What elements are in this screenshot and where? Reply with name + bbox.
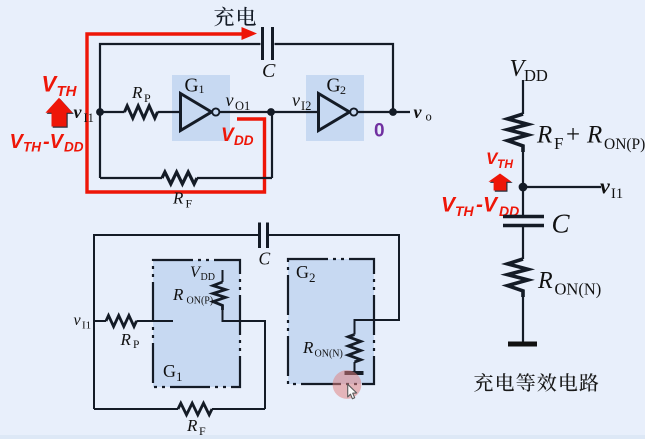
wire G1 output to node v_O1	[220, 111, 272, 113]
svg-text:+: +	[566, 122, 580, 149]
inverter U G2 triangle	[319, 94, 350, 131]
svg-text:v: v	[226, 90, 234, 110]
svg-text:R: R	[536, 122, 552, 149]
wire R_F row right	[197, 177, 272, 179]
label 充电 (charging)	[214, 7, 234, 27]
ground (G2 box)	[345, 371, 364, 375]
svg-text:ON(P): ON(P)	[604, 136, 645, 153]
node v_I1 (right) junction dot	[519, 183, 528, 192]
svg-text:P: P	[133, 339, 139, 351]
wire capacitor right to G2 box	[269, 235, 399, 335]
svg-text:R: R	[302, 338, 314, 357]
svg-text:F: F	[186, 197, 193, 211]
wire node to v_I1 label	[523, 186, 601, 188]
wire R_F row left	[100, 177, 162, 179]
inverter U G1 triangle	[181, 94, 212, 131]
inverter G1 bubble	[212, 108, 219, 115]
wire G2 output to v_o	[358, 111, 410, 113]
gate G1 background box	[172, 75, 230, 141]
resistor R_F (bottom)	[178, 403, 212, 415]
svg-text:o: o	[426, 110, 432, 124]
mouse cursor	[348, 384, 357, 399]
gate G2 equivalent box	[288, 259, 374, 384]
svg-text:C: C	[552, 209, 571, 239]
svg-text:I1: I1	[611, 186, 623, 202]
gate G1 equivalent box	[153, 260, 240, 387]
svg-text:DD: DD	[64, 140, 84, 155]
svg-text:v: v	[74, 102, 83, 122]
resistor R_ON(N) (right)	[508, 259, 529, 297]
svg-text:TH: TH	[23, 140, 41, 155]
svg-text:P: P	[144, 91, 151, 105]
svg-text:0: 0	[374, 121, 385, 142]
svg-text:1: 1	[199, 82, 205, 96]
wire R_ON(N) to ground (right)	[522, 297, 524, 342]
resistor R_P (bottom)	[106, 316, 137, 327]
svg-text:DD: DD	[524, 66, 548, 85]
svg-text:G: G	[163, 361, 176, 381]
svg-text:TH: TH	[497, 157, 513, 171]
wire outer loop left/top to capacitor	[94, 235, 258, 409]
capacitor C (top) left plate	[261, 27, 264, 60]
wire v_I1 to R_P	[100, 111, 125, 113]
svg-text:TH: TH	[455, 203, 475, 219]
svg-text:C: C	[259, 249, 271, 269]
wire v_I1 to R_P (bottom)	[94, 320, 106, 322]
wire resistor to node	[522, 152, 524, 215]
wire R_P to G1 input	[158, 111, 182, 113]
pink cursor highlight	[333, 370, 362, 399]
gate G2 background box	[306, 75, 364, 141]
svg-text:ON(N): ON(N)	[555, 280, 602, 299]
wire V_DD down	[522, 80, 524, 114]
capacitor C (right) top plate	[503, 215, 544, 219]
label 充电等效电路 (charging equivalent circuit)	[474, 373, 493, 392]
resistor R_F + R_ON(P) (right)	[508, 114, 529, 152]
svg-text:O1: O1	[235, 99, 250, 113]
svg-text:G: G	[296, 262, 309, 282]
node v_o junction dot	[389, 108, 397, 116]
svg-text:ON(N): ON(N)	[315, 349, 343, 360]
node v_O1 junction dot	[267, 108, 275, 116]
resistor R_ON(N) (box)	[348, 335, 361, 363]
inverter G2 bubble	[350, 108, 357, 115]
svg-text:G: G	[327, 76, 341, 97]
red block arrow up (right)	[490, 175, 513, 192]
capacitor C (bottom circuit) right plate	[266, 223, 269, 249]
svg-text:R: R	[537, 268, 553, 294]
wire R_F bottom row right	[212, 408, 265, 410]
svg-text:I1: I1	[84, 111, 94, 125]
svg-text:2: 2	[340, 83, 346, 97]
svg-text:R: R	[586, 122, 602, 149]
svg-text:C: C	[262, 60, 276, 82]
svg-text:G: G	[185, 76, 199, 97]
capacitor C (top) right plate	[271, 27, 274, 60]
svg-text:-V: -V	[476, 194, 499, 217]
red charging current path	[87, 34, 265, 192]
wire R_ON(N) to ground	[354, 362, 356, 371]
ground (right circuit)	[508, 342, 537, 347]
svg-text:v: v	[600, 174, 610, 199]
svg-text:I1: I1	[82, 320, 91, 332]
svg-text:F: F	[199, 424, 206, 438]
svg-text:R: R	[172, 189, 184, 208]
svg-text:2: 2	[309, 270, 316, 285]
svg-text:F: F	[554, 134, 563, 153]
svg-text:ON(P): ON(P)	[187, 296, 214, 307]
wire capacitor to v_o node	[275, 44, 394, 110]
resistor R_ON(P)	[213, 282, 226, 310]
wire R_ON(P) out to right rail	[223, 310, 266, 409]
svg-text:v: v	[292, 90, 300, 110]
resistor R_F (top)	[162, 172, 197, 184]
wire V_DD stub to R_ON(P)	[222, 270, 224, 282]
capacitor C (bottom circuit) left plate	[258, 223, 261, 249]
wire capacitor to R_ON(N)	[522, 227, 524, 259]
svg-text:-V: -V	[43, 131, 65, 153]
svg-text:R: R	[186, 416, 198, 435]
bottom bar	[0, 435, 645, 439]
red charging arrowhead	[242, 27, 258, 40]
wire v_I1 node up to capacitor (top left loop)	[100, 44, 261, 178]
svg-text:TH: TH	[57, 83, 78, 100]
svg-text:DD: DD	[201, 272, 215, 283]
resistor R_P (top)	[125, 106, 158, 118]
svg-text:v: v	[414, 102, 423, 122]
capacitor C (right) bottom plate	[503, 224, 544, 228]
svg-text:R: R	[172, 285, 184, 304]
node v_I1 junction dot	[96, 108, 104, 116]
svg-text:V: V	[221, 125, 235, 146]
svg-text:1: 1	[176, 369, 183, 384]
wire R_P into G1 box stub	[137, 320, 174, 322]
svg-text:I2: I2	[301, 99, 311, 113]
svg-text:R: R	[120, 330, 132, 349]
svg-text:v: v	[74, 312, 82, 329]
wire node v_O1 to G2 input	[271, 111, 319, 113]
wire R_F bottom row left	[94, 408, 178, 410]
wire v_O1 node down to R_F	[271, 112, 273, 178]
svg-text:R: R	[131, 83, 143, 102]
svg-text:DD: DD	[234, 133, 254, 148]
red block arrow up (V_TH)	[47, 99, 74, 128]
